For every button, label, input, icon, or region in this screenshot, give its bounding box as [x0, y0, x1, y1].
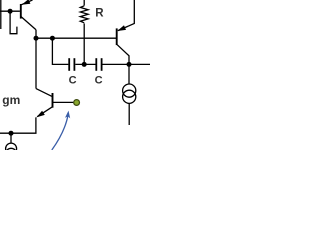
wire left edge vertical [0, 0, 2, 29]
transistor Q2 emitter wire from top [118, 0, 134, 31]
transistor Q3 emitter [37, 107, 52, 117]
wire base of Q1 [0, 10, 20, 12]
resistor R zigzag [80, 6, 88, 23]
svg-text:C: C [69, 75, 77, 87]
wire Q1 collector to node A vertical [35, 30, 37, 89]
wire node D stub to current source I1 [10, 133, 12, 143]
node C dot at Q2 collector [127, 62, 132, 67]
wire node B down to capacitor row [52, 38, 68, 64]
transistor Q1 emitter [21, 0, 32, 5]
wire bus horizontal [36, 37, 116, 39]
transistor Q1 emitter arrowhead [22, 0, 31, 5]
annotation blue arrowhead [65, 111, 70, 119]
transistor Q3 emitter arrowhead [36, 111, 45, 118]
transistor Q1 collector [21, 17, 36, 30]
node dot between capacitors [82, 62, 87, 67]
transistor Q2 collector [117, 45, 129, 65]
capacitor C1 right plate [73, 58, 75, 71]
current source I2 top circle [123, 84, 136, 97]
transistor Q2 emitter arrowhead [117, 25, 126, 31]
wire base-loop bracket [10, 11, 17, 34]
capacitor C1 left plate [68, 58, 70, 71]
node dot on Q1 base [8, 9, 13, 14]
node D dot on emitter wire [9, 131, 14, 136]
wire current source I2 tail [128, 103, 130, 125]
resistor R top lead [83, 0, 85, 6]
current source I1 bottom circle [6, 148, 17, 159]
transistor Q3 base bar [52, 93, 54, 108]
transistor Q1 base bar [20, 4, 22, 19]
transistor Q3 collector [36, 89, 52, 97]
transistor Q2 base bar [116, 28, 118, 45]
svg-text:C: C [95, 75, 103, 87]
node A dot on bus [34, 36, 39, 41]
wire between capacitors [75, 63, 95, 65]
wire Q3 emitter down and left [0, 117, 36, 133]
current source I1 top circle [6, 143, 17, 154]
wire Q3 base to input node [53, 101, 74, 103]
input node green terminal [74, 100, 80, 106]
wire node C down to current source [128, 64, 130, 84]
wire capacitor C2 to right edge [103, 63, 151, 65]
capacitor C2 left plate [95, 58, 97, 71]
wire resistor lead down to capacitor node [83, 23, 85, 64]
svg-text:gm: gm [2, 93, 20, 107]
svg-text:R: R [95, 7, 104, 19]
capacitor C2 right plate [101, 58, 103, 71]
current source I2 bottom circle [123, 90, 136, 103]
node B dot on bus [50, 36, 55, 41]
annotation blue arrow [52, 114, 69, 151]
